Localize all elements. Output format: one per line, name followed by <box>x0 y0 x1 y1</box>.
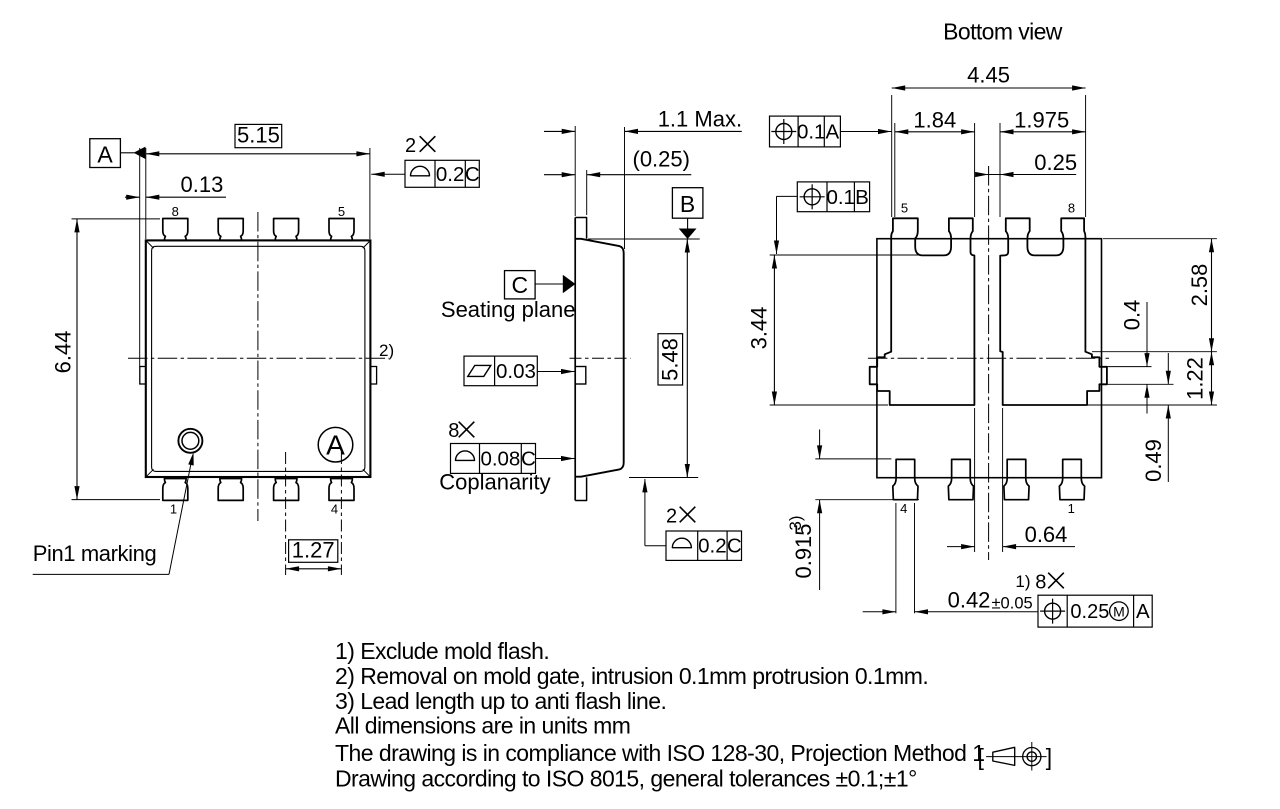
svg-text:0.08: 0.08 <box>480 447 520 470</box>
svg-text:A: A <box>1136 600 1150 623</box>
svg-text:0.49: 0.49 <box>1141 439 1166 482</box>
svg-text:1: 1 <box>170 502 177 517</box>
datum C leader and filled triangle <box>535 283 565 285</box>
svg-text:1.27: 1.27 <box>292 538 335 563</box>
svg-text:0.25: 0.25 <box>1070 601 1109 623</box>
svg-text:B: B <box>680 191 695 217</box>
position tolerance 0.1 B callout <box>797 182 869 212</box>
side view top lead stub <box>575 218 586 239</box>
right side extension line pad bottom <box>1088 404 1217 406</box>
svg-text:[: [ <box>978 744 985 770</box>
bottom view pin 1 (bottom row) <box>1059 459 1084 499</box>
svg-text:6.44: 6.44 <box>51 331 76 374</box>
svg-text:0.42: 0.42 <box>948 588 991 613</box>
svg-text:All dimensions are in units mm: All dimensions are in units mm <box>335 713 630 739</box>
svg-text:3) Lead length up to anti flas: 3) Lead length up to anti flash line. <box>335 688 666 714</box>
side view mold gate tab <box>575 367 586 385</box>
top view pin 1 (bottom row) <box>163 479 188 501</box>
svg-text:C: C <box>465 163 480 186</box>
bottom view pin 3 (bottom row) <box>948 459 973 499</box>
svg-text:4: 4 <box>331 502 338 517</box>
side view horizontal centerline <box>570 357 631 359</box>
svg-text:A: A <box>97 142 113 168</box>
extension line body left edge <box>145 148 147 239</box>
bottom view pin 4 (bottom row) <box>893 459 918 499</box>
svg-text:4: 4 <box>900 501 907 516</box>
svg-text:0.25: 0.25 <box>1034 150 1077 175</box>
side view molded body outline <box>575 239 624 477</box>
svg-text:(0.25): (0.25) <box>633 147 690 172</box>
0.4 extension lines <box>1108 366 1152 368</box>
bottom view vertical centerline <box>988 166 990 560</box>
top view pin 8 (top row) <box>163 219 188 241</box>
4.45 left extension line <box>891 95 893 217</box>
extension line body right edge upward <box>624 127 626 249</box>
svg-text:M: M <box>1113 604 1125 620</box>
dimension 5.15 with frame <box>235 124 282 147</box>
top view horizontal centerline <box>128 357 389 359</box>
svg-text:5.15: 5.15 <box>237 123 280 148</box>
svg-text:B: B <box>855 186 869 209</box>
svg-text:C: C <box>521 447 536 470</box>
dimension 5.48 with frame <box>658 334 683 385</box>
flatness tolerance frame 0.03 <box>464 356 537 386</box>
top view body inner edge (mold chamfer) <box>152 246 365 471</box>
svg-text:A: A <box>826 121 840 144</box>
datum B box <box>672 188 703 219</box>
svg-text:0.2: 0.2 <box>436 163 465 186</box>
0.64 extension lines <box>974 408 976 552</box>
top view pin 3 (bottom row) <box>274 479 299 501</box>
pin 4 centerline extension <box>340 452 342 575</box>
bottom view left pad with pins 5-6 and side wing <box>870 218 975 405</box>
svg-text:1.1 Max.: 1.1 Max. <box>658 106 742 131</box>
svg-text:0.03: 0.03 <box>496 360 536 383</box>
pin1 marking circle <box>178 429 202 453</box>
svg-text:0.1: 0.1 <box>797 121 826 144</box>
datum B leader and filled triangle <box>687 218 689 229</box>
5.48 bottom extension line <box>629 477 698 479</box>
svg-text:4.45: 4.45 <box>967 63 1010 88</box>
top view package body outline <box>146 240 371 477</box>
bottom view horizontal centerline <box>868 357 1109 359</box>
top view right mold-gate tab <box>370 367 376 385</box>
svg-text:8: 8 <box>1035 572 1046 594</box>
svg-text:1.84: 1.84 <box>913 108 956 133</box>
svg-text:3): 3) <box>786 515 805 530</box>
svg-text:Coplanarity: Coplanarity <box>439 470 550 495</box>
1.975 left extension line <box>999 123 1001 217</box>
svg-text:0.64: 0.64 <box>1025 522 1068 547</box>
6.44 bottom extension line <box>72 499 161 501</box>
svg-text:1) Exclude mold flash.: 1) Exclude mold flash. <box>335 638 549 664</box>
extension line body right edge <box>369 148 371 239</box>
extension line lead stub right edge <box>586 170 588 215</box>
bottom view pin 2 (bottom row) <box>1004 459 1029 499</box>
0.42 extension lines <box>895 503 897 613</box>
0.915 extension lines <box>815 458 891 460</box>
svg-text:C: C <box>511 272 528 298</box>
side view lead plane extension line upward <box>574 126 576 216</box>
svg-text:3.44: 3.44 <box>747 307 772 350</box>
3.44 top extension line (lead tip line) <box>770 254 944 256</box>
svg-text:The drawing is in compliance w: The drawing is in compliance with ISO 12… <box>335 740 985 766</box>
svg-text:C: C <box>727 535 742 558</box>
5.48 top extension line <box>588 238 700 240</box>
svg-text:Pin1 marking: Pin1 marking <box>33 541 157 566</box>
svg-text:1: 1 <box>1068 501 1075 516</box>
svg-text:8: 8 <box>172 204 179 219</box>
right side extension line pad step <box>1092 351 1217 353</box>
6.44 top extension line <box>72 218 161 220</box>
svg-text:0.1: 0.1 <box>826 186 855 209</box>
bottom view right pad with pins 7-8 and side wing <box>1000 218 1107 405</box>
4.45 right extension line <box>1085 95 1087 217</box>
top view pin 5 (top row) <box>329 219 354 241</box>
3.44 bottom extension line <box>770 404 888 406</box>
svg-text:5: 5 <box>901 201 908 216</box>
side view bottom lead stub <box>575 477 586 500</box>
svg-text:0.2: 0.2 <box>698 535 727 558</box>
svg-text:]: ] <box>1046 744 1052 770</box>
svg-text:1): 1) <box>1015 572 1030 591</box>
dimension 1.27 with frame <box>289 540 338 563</box>
svg-text:2: 2 <box>666 506 677 528</box>
svg-text:1.22: 1.22 <box>1183 357 1208 400</box>
svg-text:Drawing according to ISO 8015,: Drawing according to ISO 8015, general t… <box>335 765 917 791</box>
top view vertical centerline <box>257 212 259 521</box>
side view lead plane line <box>574 218 576 501</box>
svg-text:±0.05: ±0.05 <box>992 595 1033 613</box>
svg-text:0.13: 0.13 <box>181 172 224 197</box>
svg-text:1.975: 1.975 <box>1014 108 1069 133</box>
svg-text:A: A <box>326 430 345 461</box>
svg-text:2) Removal on mold gate, intru: 2) Removal on mold gate, intrusion 0.1mm… <box>335 663 928 689</box>
top view pin 6 (top row) <box>274 219 299 241</box>
svg-text:Bottom view: Bottom view <box>943 19 1063 45</box>
svg-text:Seating plane: Seating plane <box>441 297 576 322</box>
top view pin 7 (top row) <box>218 219 243 241</box>
datum A box <box>90 139 121 168</box>
top view left mold-gate tab <box>140 367 146 385</box>
svg-text:8: 8 <box>448 420 459 442</box>
1.84 left extension line <box>894 123 896 217</box>
datum A leader and filled triangle <box>120 152 134 154</box>
svg-text:5.48: 5.48 <box>658 338 683 381</box>
svg-text:5: 5 <box>338 204 345 219</box>
1.84 right extension line <box>974 123 976 217</box>
position tolerance 0.1 A callout <box>770 116 841 147</box>
extension line left tab edge <box>139 148 141 366</box>
svg-text:2: 2 <box>405 135 416 157</box>
top view pin 4 (bottom row) <box>329 479 354 501</box>
svg-text:0.915: 0.915 <box>791 523 816 578</box>
svg-text:8: 8 <box>1068 201 1075 216</box>
svg-text:2.58: 2.58 <box>1187 264 1212 307</box>
bottom view mold body outline <box>877 239 1102 478</box>
seating plane datum C box <box>505 271 536 299</box>
A marking circle <box>318 427 353 462</box>
pin 3 centerline extension <box>285 452 287 575</box>
svg-text:2): 2) <box>379 341 394 360</box>
top view pin 2 (bottom row) <box>218 479 243 501</box>
right side extension line body top <box>1103 238 1217 240</box>
svg-text:0.4: 0.4 <box>1120 300 1145 331</box>
top view corner chamfer ticks <box>147 241 154 248</box>
